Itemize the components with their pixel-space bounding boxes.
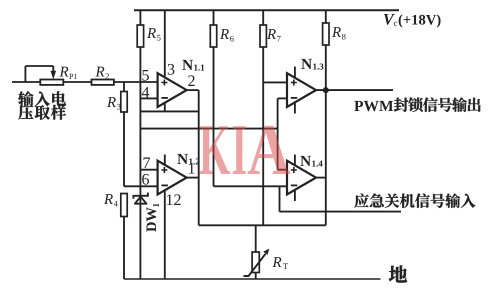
resistor R4 (121, 194, 127, 217)
wire node bus y128.6 (140, 128, 277, 130)
label R6 (220, 29, 229, 39)
op-amp comparator N1.3 (294, 67, 296, 80)
wire N1.3 output (PWM) (316, 89, 393, 91)
junction dot (323, 87, 329, 93)
pin number 12 (167, 194, 181, 205)
label N1.3 (301, 59, 312, 69)
label R3 (107, 97, 116, 107)
pin number 4 (142, 87, 149, 98)
pin 12 GND line (164, 190, 166, 279)
label R2 (95, 67, 104, 77)
pin number 6 (142, 174, 149, 185)
label: input voltage sampling line 2 (18, 105, 66, 120)
pin number 1 (189, 163, 195, 174)
wire bottom bus y225 (199, 224, 326, 226)
pin number 2 (188, 75, 194, 86)
label RP1 (59, 67, 68, 77)
op-amp comparator N1.4 (294, 155, 296, 167)
bottom tick N1.1 (164, 102, 166, 111)
wire emergency shutdown input (280, 211, 402, 213)
label: input voltage sampling line 1 (18, 91, 66, 106)
wire N1.4 output (316, 177, 326, 179)
wire N1.2 output (187, 177, 199, 179)
wire pin 4 (140, 97, 157, 99)
label R7 (267, 29, 276, 39)
pin number 5 (142, 70, 148, 81)
KIA watermark (200, 126, 291, 174)
op-amp comparator N1.2 (164, 155, 166, 167)
wire N1.1 output (187, 89, 199, 91)
wire N1.4 + input (278, 169, 287, 171)
pin 3 VCC line (164, 10, 166, 79)
resistor R7 (262, 10, 264, 25)
label R4 (104, 194, 113, 204)
resistor R3 (123, 82, 125, 92)
label R5 (147, 28, 156, 38)
wire: ground bottom rail (124, 278, 381, 280)
resistor R2 (92, 80, 114, 85)
pin number 3 (168, 64, 175, 75)
pin number 7 (144, 158, 150, 168)
wire N1.3 + input (263, 81, 287, 83)
resistor R8 (325, 10, 327, 23)
wire R6 to N1.4 - input (214, 185, 288, 187)
resistor R5 (139, 10, 141, 25)
wire: +18V top supply rail (134, 9, 399, 11)
label: ground (389, 265, 407, 282)
wire pin 6 (124, 185, 158, 187)
label N1.4 (300, 156, 311, 166)
label DW1 (rotated) (147, 203, 159, 231)
label R8 (332, 27, 341, 37)
label RT (272, 257, 281, 267)
wire N1.3 - input (278, 97, 287, 99)
wire node bus vertical x277.6 (277, 98, 279, 169)
wire drop to emergency line (279, 186, 281, 211)
resistor R6 (213, 10, 215, 25)
label: PWM blocking signal output (354, 101, 393, 111)
wire vertical x198.7 (198, 90, 200, 225)
label: emergency shutdown signal input (354, 193, 475, 207)
label Vc(+18V) (384, 14, 395, 25)
wire feedback y111 (140, 110, 198, 112)
wire: input sampling wire to pin 5 (12, 81, 158, 83)
potentiometer RP1 (24, 66, 26, 82)
label N1.1 (182, 60, 193, 70)
thermistor RT (255, 225, 257, 252)
zener diode DW1 (133, 193, 148, 199)
wire: node column x140 (139, 47, 141, 196)
wire pin 7 (140, 169, 157, 171)
label N1.2 (177, 154, 188, 164)
